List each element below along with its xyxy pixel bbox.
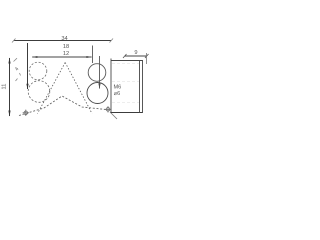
leader dot 2 [16, 79, 18, 82]
hidden line side view 2 [112, 81, 139, 83]
svg-text:18: 18 [63, 44, 69, 50]
arrowhead L3 left [32, 56, 37, 58]
corner slash bottom right of front view [110, 112, 117, 119]
big triangle dotted right leg [65, 63, 92, 114]
circle top-left (dashed) [29, 62, 47, 80]
extension line x27.5 with down arrow [27, 43, 29, 89]
svg-text:M6: M6 [114, 85, 122, 91]
dashed shallow polyline W [19, 96, 106, 116]
svg-text:⌀6: ⌀6 [114, 91, 120, 97]
hidden line side view 3 [112, 102, 139, 104]
leader vertical x99.5 with down arrow [99, 56, 101, 89]
arrowhead up [8, 58, 10, 64]
hidden line side view 1 [112, 63, 139, 65]
arrowhead down [8, 111, 10, 117]
tick left L1 [12, 39, 16, 43]
big triangle dotted left leg [38, 63, 66, 114]
tick right L1 [110, 39, 114, 43]
side view right edge inner [139, 60, 141, 113]
small tick upper left [14, 58, 18, 61]
dimension line L1 top [14, 40, 112, 42]
side view right edge outer [142, 60, 144, 113]
arrowhead down at 27.5,75.5 [26, 84, 28, 90]
centroid mark left [23, 110, 29, 116]
svg-text:12: 12 [63, 51, 69, 57]
arrowhead down at 99.5,88.5 [98, 83, 100, 89]
dimension line L3 with arrows [32, 56, 91, 58]
circle bottom-right [87, 83, 108, 104]
left vertical dimension line [9, 58, 11, 116]
circle bottom-left (dashed) [28, 81, 50, 103]
circle top-right [88, 64, 106, 82]
side view bottom edge [111, 112, 143, 114]
leader dot 1 [20, 73, 21, 76]
side view left edge [110, 59, 112, 114]
tick right 9-dim [145, 54, 149, 58]
centroid mark right [105, 106, 111, 112]
arrowhead L3 right [86, 56, 91, 58]
extension line x92.5 [92, 46, 94, 64]
dimension 9 top right [125, 55, 147, 57]
extension vertical right of 9-dim [146, 53, 148, 64]
svg-text:34: 34 [61, 36, 67, 42]
side view top edge [111, 60, 143, 62]
svg-text:9: 9 [134, 50, 137, 56]
tick left 9-dim [123, 54, 127, 58]
svg-text:11: 11 [2, 84, 8, 90]
